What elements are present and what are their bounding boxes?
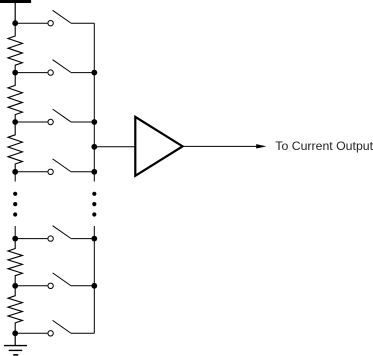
wire: left rail below node 4 — [14, 172, 16, 182]
switch S1 terminal circle — [48, 21, 53, 26]
switch S5 blade — [53, 226, 71, 239]
left rail ellipsis dots — [13, 192, 17, 217]
node 7 junction — [12, 330, 18, 336]
svg-text:To Current Output: To Current Output — [275, 139, 373, 153]
bus junction at node 6 row — [91, 283, 97, 289]
wire: node 5 to switch S5 terminal — [15, 238, 47, 240]
resistor R1 — [8, 23, 22, 72]
bus lower segment — [93, 226, 95, 333]
switch S7 blade — [53, 320, 71, 333]
switch S4 terminal circle — [48, 169, 53, 174]
wire: node 7 to ground — [14, 333, 16, 345]
resistor R3 — [8, 122, 22, 172]
bus junction at node 3 row — [91, 119, 97, 125]
wire: buffer output — [183, 145, 257, 147]
wire: node 1 to switch S1 terminal — [15, 22, 47, 24]
arrowhead to current output — [256, 144, 266, 148]
switch S7 terminal circle — [48, 331, 53, 336]
wire: switch S4 to bus — [71, 171, 95, 173]
wire: switch S2 to bus — [71, 72, 95, 74]
wire: bus tap to buffer input — [94, 146, 135, 148]
wire: top bar to node 1 — [14, 3, 16, 23]
wire: switch S3 to bus — [71, 121, 95, 123]
resistor R5 — [8, 286, 22, 334]
wire: node 4 to switch S4 terminal — [15, 171, 47, 173]
bus junction at node 5 row — [91, 236, 97, 242]
switch S1 blade — [53, 10, 71, 23]
ground symbol — [4, 346, 27, 355]
node 6 junction — [12, 283, 18, 289]
bus junction at node 2 row — [91, 70, 97, 76]
wire: switch S7 to bus — [71, 332, 95, 334]
wire: switch S5 to bus — [71, 238, 95, 240]
bus upper segment — [93, 23, 95, 181]
wire: node 6 to switch S6 terminal — [15, 285, 47, 287]
switch S6 blade — [53, 273, 71, 286]
top reference rail bar — [0, 0, 31, 3]
node 2 junction — [12, 70, 18, 76]
wire: node 3 to switch S3 terminal — [15, 121, 47, 123]
wire: node 7 to switch S7 terminal — [15, 332, 47, 334]
buffer amplifier U1 — [135, 117, 182, 176]
node 4 junction — [12, 169, 18, 175]
resistor R4 — [8, 239, 22, 286]
switch S4 blade — [53, 159, 71, 172]
switch S2 terminal circle — [48, 70, 53, 75]
switch S3 blade — [53, 109, 71, 122]
bus tap junction to buffer — [91, 144, 97, 150]
wire: switch S6 to bus — [71, 285, 95, 287]
bus junction at node 4 row — [91, 169, 97, 175]
switch S6 terminal circle — [48, 283, 53, 288]
node 1 junction — [12, 20, 18, 26]
switch S3 terminal circle — [48, 119, 53, 124]
resistor R2 — [8, 73, 22, 122]
wire: switch S1 to bus — [71, 22, 95, 24]
wire: left rail above node 5 — [14, 226, 16, 239]
switch S5 terminal circle — [48, 236, 53, 241]
node 5 junction — [12, 236, 18, 242]
switch S2 blade — [53, 60, 71, 73]
bus ellipsis dots — [92, 192, 96, 217]
node 3 junction — [12, 119, 18, 125]
wire: node 2 to switch S2 terminal — [15, 72, 47, 74]
